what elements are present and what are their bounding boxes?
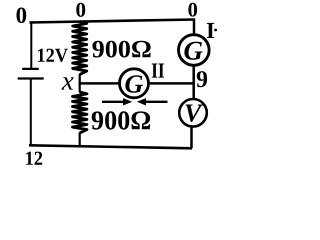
label 900ohm R1 value	[92, 41, 150, 58]
label I trailing dot	[214, 29, 217, 32]
node x wiper tap label	[62, 77, 74, 89]
wire top horizontal	[30, 20, 196, 23]
wiper arrow right shaft	[145, 101, 168, 103]
galvanometer U2 (G II) circle	[120, 69, 149, 98]
label 0 scale left	[17, 8, 27, 24]
wire right vertical lower	[190, 126, 193, 148]
wire left vertical upper	[30, 21, 32, 68]
label 12V battery value	[38, 49, 68, 63]
wire middle column between coil1 and x junction	[79, 74, 81, 93]
label 12 scale bottom	[26, 152, 42, 165]
wire right vertical middle	[192, 65, 195, 100]
wire left vertical lower	[30, 79, 32, 147]
voltmeter U3 circle	[179, 99, 207, 127]
wire branch left (x tap to galvanometer II)	[79, 82, 120, 85]
wire branch right (G II to right column)	[149, 82, 195, 85]
label I meter number	[207, 23, 214, 38]
label 0 scale middle	[76, 3, 85, 17]
resistor R2 coil (lower 900 ohm)	[73, 92, 87, 133]
wiper arrow left shaft	[102, 101, 124, 103]
wire right vertical upper	[193, 19, 196, 36]
ammeter U1 letter G	[184, 42, 202, 60]
label 0 scale right	[188, 3, 197, 17]
wire middle column below lower coil	[79, 133, 81, 148]
wiper arrow left head	[123, 98, 132, 105]
resistor R1 coil (upper 900 ohm)	[73, 22, 87, 75]
battery positive long plate	[18, 77, 44, 79]
voltmeter U3 letter V	[186, 105, 204, 122]
ammeter U1 (G I) circle	[179, 35, 210, 66]
label 9 scale reading	[197, 71, 207, 87]
galvanometer U2 letter G	[125, 75, 143, 93]
label II meter number	[152, 64, 164, 78]
label 900ohm R2 value	[92, 111, 150, 129]
battery negative short plate	[22, 68, 39, 70]
wire bottom horizontal	[29, 145, 192, 148]
wiper arrow right head	[137, 98, 146, 105]
